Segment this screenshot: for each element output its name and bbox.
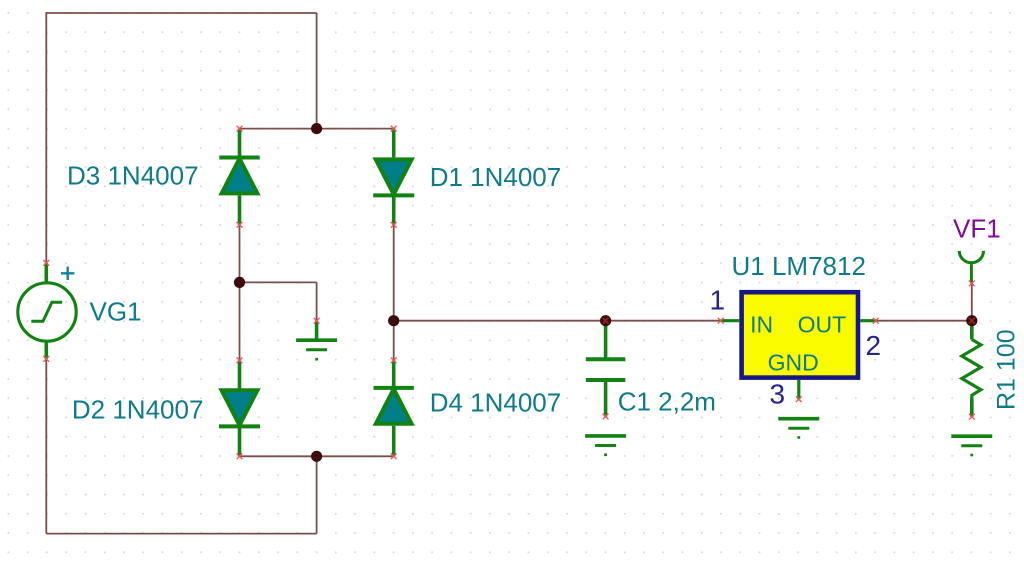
svg-text:3: 3 bbox=[770, 379, 786, 410]
junction dot at R1/VF1 bbox=[966, 315, 977, 326]
svg-text:D4 1N4007: D4 1N4007 bbox=[430, 388, 562, 418]
VG1 plus polarity mark bbox=[61, 267, 74, 280]
x U1 pin2 bbox=[873, 318, 879, 324]
x D3 top bbox=[237, 126, 243, 132]
diode D4 (pointing up) bbox=[374, 360, 414, 456]
wire output rail (393.7,320.7)-(720.7,320.7) bbox=[394, 320, 721, 322]
regulator U1 LM7812 bbox=[721, 292, 876, 399]
resistor R1 bbox=[962, 321, 981, 417]
voltage probe VF1 bbox=[959, 251, 983, 284]
x R1 top (over junction dot) bbox=[969, 318, 975, 324]
svg-text:C1 2,2m: C1 2,2m bbox=[618, 386, 716, 416]
wire left vertical lower (46,358.9)-(46,533.6) bbox=[45, 359, 47, 534]
svg-text:VG1: VG1 bbox=[90, 297, 142, 327]
wire bottom horizontal (46,533.6)-(317,533.6) bbox=[46, 533, 316, 535]
source VG1 bbox=[18, 263, 76, 359]
wire top horizontal (46,13)-(317,13) bbox=[46, 12, 316, 14]
x D3 bottom bbox=[237, 222, 243, 228]
wire bottom rail (239.5,456.3)-(393.7,456.3) bbox=[240, 455, 394, 457]
svg-text:VF1: VF1 bbox=[953, 214, 1001, 244]
diode D2 (pointing down) bbox=[219, 360, 260, 456]
ground below U1 pin 3 bbox=[778, 419, 819, 438]
x D4 top bbox=[391, 357, 397, 363]
x D4 bottom bbox=[391, 453, 397, 459]
wire VF1 vertical (971.8,283.4)-(971.8,320.7) bbox=[971, 283, 973, 320]
wire bottom-right vertical (317,533.6)-(317,456.3) bbox=[316, 456, 318, 533]
wire right vertical D1 to D4 (393.7,224.8)-(393.7,360.3) bbox=[393, 225, 395, 360]
junction dot mid-left node bbox=[234, 277, 245, 288]
terminal x marks bbox=[43, 126, 974, 460]
ground below C1 bbox=[585, 436, 626, 455]
x D2 top bbox=[237, 357, 243, 363]
diode D1 (pointing down) bbox=[373, 129, 414, 225]
svg-text:OUT: OUT bbox=[798, 311, 847, 337]
ground below R1 bbox=[951, 436, 992, 455]
junction dot bottom rail bbox=[311, 451, 322, 462]
svg-text:U1 LM7812: U1 LM7812 bbox=[732, 251, 866, 281]
x D2 bottom bbox=[237, 453, 243, 459]
svg-text:D1 1N4007: D1 1N4007 bbox=[430, 162, 562, 192]
svg-text:2: 2 bbox=[866, 330, 882, 361]
x C1 bottom bbox=[603, 414, 609, 420]
svg-text:GND: GND bbox=[768, 350, 819, 376]
wire top rail (239.5,128.6)-(393.7,128.6) bbox=[240, 128, 394, 130]
wire left vertical upper (46,13)-(46,262.9) bbox=[45, 12, 47, 263]
junction dot top rail bbox=[311, 123, 322, 134]
x VG1 top bbox=[43, 260, 49, 266]
wire mid branch horizontal (239.5,282.4)-(316.6,282.4) bbox=[240, 281, 317, 283]
junction dot bridge output bbox=[388, 315, 399, 326]
x VG1 bottom bbox=[43, 356, 49, 362]
wire mid-left vertical D3 to D2 (239.5,224.8)-(239.5,360.3) bbox=[239, 225, 241, 360]
svg-text:D2 1N4007: D2 1N4007 bbox=[72, 395, 204, 425]
x D1 top bbox=[391, 126, 397, 132]
diode D3 (pointing up) bbox=[219, 129, 259, 225]
svg-text:1: 1 bbox=[710, 284, 726, 315]
junction dot at C1 bbox=[600, 315, 611, 326]
x D1 bottom bbox=[391, 222, 397, 228]
svg-text:D3 1N4007: D3 1N4007 bbox=[67, 160, 199, 190]
capacitor C1 bbox=[586, 321, 625, 417]
wire output rail 2 (875.7,320.7)-(971.8,320.7) bbox=[876, 320, 972, 322]
x VF1 terminal bbox=[969, 281, 975, 287]
x GND1 terminal bbox=[314, 318, 320, 324]
wire mid branch vertical to ground (316.6,282.4)-(316.6,320.7) bbox=[316, 282, 318, 320]
x C1 top (over junction dot) bbox=[603, 318, 609, 324]
ground GND1 (bridge center) bbox=[296, 321, 337, 360]
x U1 pin3 bbox=[796, 396, 802, 402]
x R1 bottom bbox=[969, 414, 975, 420]
svg-text:IN: IN bbox=[750, 311, 773, 337]
wire top-right vertical (317,13)-(317,128.6) bbox=[316, 13, 318, 129]
svg-text:R1 100: R1 100 bbox=[993, 329, 1021, 410]
x U1 pin1 bbox=[718, 318, 724, 324]
